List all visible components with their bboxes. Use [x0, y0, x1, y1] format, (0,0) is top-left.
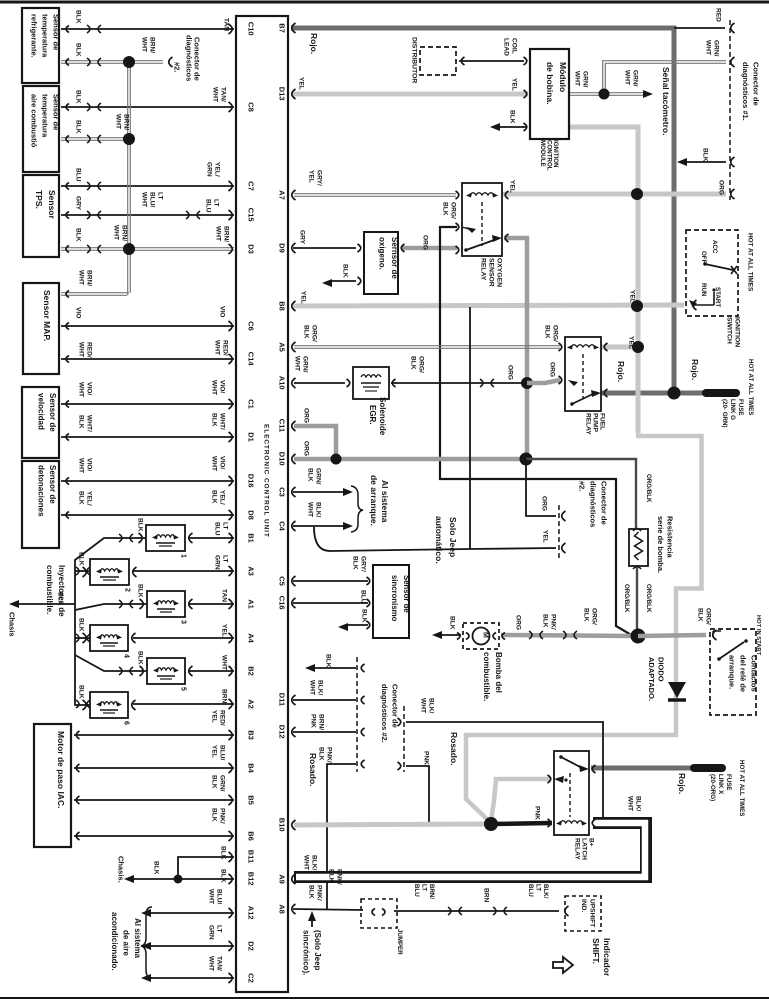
svg-text:IGNITION: IGNITION [733, 317, 740, 347]
label LT GRN D2 [207, 925, 222, 940]
svg-text:A2: A2 [247, 699, 256, 709]
svg-text:A8: A8 [278, 904, 287, 914]
svg-text:BLK: BLK [77, 552, 84, 566]
fork upshift [565, 906, 569, 916]
svg-text:OXYGEN: OXYGEN [495, 258, 502, 287]
svg-text:YEL: YEL [297, 77, 304, 90]
wire conector2 PNK/BLK to A8 [327, 764, 356, 909]
wire shield aire BRN/WHT [61, 135, 130, 143]
svg-text:WHT/: WHT/ [85, 415, 92, 432]
svg-text:WHT: WHT [77, 270, 84, 285]
svg-text:B5: B5 [247, 795, 256, 805]
svg-text:B4: B4 [247, 763, 256, 773]
svg-text:B12: B12 [247, 872, 256, 886]
svg-text:de aire: de aire [121, 930, 130, 956]
label Rojo fuelpump-r [690, 359, 700, 380]
svg-text:ORG: ORG [421, 235, 428, 250]
wire GRN/WHT tacho arrow [604, 93, 645, 96]
svg-text:4: 4 [123, 654, 130, 658]
label Rosado B10 [308, 753, 318, 787]
label GRN/BLK B5 [210, 775, 225, 792]
svg-text:B3: B3 [247, 730, 256, 740]
svg-text:WHT: WHT [207, 889, 214, 904]
resistor text [656, 516, 675, 573]
svg-text:Resistencia: Resistencia [666, 516, 675, 559]
label VIO C6 [218, 306, 225, 317]
diodo text [647, 657, 666, 701]
wire conector2 PNK down [406, 766, 429, 824]
svg-text:BLK: BLK [448, 616, 455, 630]
resistor serie de bomba [629, 529, 648, 570]
svg-text:RED/: RED/ [85, 342, 92, 358]
svg-text:Rojo.: Rojo. [690, 359, 700, 380]
svg-text:LT: LT [212, 199, 219, 207]
svg-text:B2: B2 [247, 666, 256, 676]
label TAN/WHT C2 [207, 956, 222, 971]
svg-text:BRN/: BRN/ [85, 270, 92, 286]
wire C4 BLK/WHT [293, 525, 346, 527]
contactos text [728, 655, 759, 692]
svg-text:serie de bomba.: serie de bomba. [656, 516, 665, 573]
svg-text:Bomba del: Bomba del [494, 652, 503, 693]
label BRN/WHT top-a [140, 37, 155, 53]
svg-text:Sensor de: Sensor de [402, 575, 411, 613]
wire B7 Rojo [291, 28, 674, 391]
svg-text:RED: RED [714, 8, 721, 22]
svg-text:(20-ORG): (20-ORG) [709, 774, 716, 801]
wire oxygen-relay ORG out [504, 238, 527, 460]
svg-text:C14: C14 [247, 352, 256, 367]
label YEL ign-sw [628, 290, 635, 303]
svg-text:D8: D8 [247, 510, 256, 520]
svg-text:START: START [714, 287, 721, 307]
svg-text:PNK/: PNK/ [335, 869, 342, 885]
conector2-mid dashed line [558, 505, 560, 558]
svg-text:TAN/: TAN/ [219, 87, 226, 102]
svg-text:BRN: BRN [220, 689, 227, 704]
solenoide EGR text [368, 397, 387, 436]
label BLK/WHT C4 [306, 502, 321, 518]
fork ORG conector1 [731, 189, 735, 199]
svg-text:BLK: BLK [219, 846, 226, 860]
svg-text:diagnósticos: diagnósticos [185, 35, 194, 81]
svg-text:B1: B1 [247, 533, 256, 543]
svg-text:BLU/: BLU/ [148, 192, 155, 208]
label BLK/WHT A9 [302, 855, 317, 871]
wire shield D3 BRN/WHT [129, 248, 234, 251]
label RED/YEL B3 [210, 710, 225, 726]
svg-text:BLK: BLK [77, 618, 84, 632]
oxygen sensor pin forks [358, 244, 405, 285]
svg-text:BRN/: BRN/ [120, 225, 127, 241]
svg-text:YEL: YEL [210, 710, 217, 723]
wire C6-MAP VIO [61, 325, 234, 327]
diodo adaptado [668, 682, 686, 700]
svg-text:BLU: BLU [359, 590, 366, 604]
svg-text:LT: LT [215, 925, 222, 933]
wire YEL ignition to starter contacts [466, 436, 702, 822]
modulo de bobina box [530, 49, 569, 139]
svg-text:diagnósticos #2.: diagnósticos #2. [380, 684, 389, 743]
oxygen relay pin forks [456, 191, 509, 254]
svg-text:EGR.: EGR. [368, 405, 377, 425]
svg-text:Chasis: Chasis [8, 612, 17, 637]
svg-text:BLK/: BLK/ [542, 884, 549, 899]
label ORG C11 [302, 408, 309, 423]
svg-text:WHT: WHT [114, 114, 121, 129]
wire C15-TPS GRY [61, 211, 234, 219]
wire C10-refrigerante BLK [61, 25, 234, 33]
label BRN/WHT aire [114, 114, 129, 130]
label FUSE LINK G [721, 399, 744, 428]
svg-text:BRN/: BRN/ [317, 714, 324, 730]
svg-text:B11: B11 [247, 850, 256, 863]
junction D10-ORG-bus [520, 453, 533, 466]
arrow senal tacometro [643, 90, 653, 98]
svg-text:arranque.: arranque. [728, 655, 737, 689]
svg-text:WHT: WHT [302, 855, 309, 870]
svg-text:PNK/: PNK/ [325, 747, 332, 763]
svg-text:Módulo: Módulo [558, 62, 568, 92]
svg-text:BLK: BLK [74, 90, 81, 104]
label ORG D10 [302, 441, 309, 456]
label HOT AT ALL TIMES fuseX [738, 760, 745, 816]
svg-text:PNK: PNK [422, 751, 429, 765]
svg-text:YEL/: YEL/ [85, 491, 92, 506]
svg-text:D1: D1 [247, 432, 256, 442]
label Rojo B7 [309, 33, 319, 54]
svg-text:BLK: BLK [74, 228, 81, 242]
svg-text:BLK: BLK [360, 609, 367, 623]
svg-text:combustible.: combustible. [45, 565, 54, 614]
svg-text:GRY: GRY [298, 230, 305, 245]
wire sincronismo BLK [345, 624, 368, 626]
wire B5-IAC GRN/BLK [74, 799, 234, 801]
label ORG/BLK oxy-relay [441, 202, 456, 219]
label BLK inj1 [136, 518, 143, 532]
svg-text:BLK: BLK [302, 325, 309, 339]
wire shield MAP BRN/WHT [61, 293, 129, 296]
svg-text:de arranque.: de arranque. [369, 475, 379, 526]
label Rosado mid [449, 732, 459, 766]
wire A2-injector6 BRN [133, 703, 234, 705]
svg-text:Al sistema: Al sistema [133, 918, 142, 959]
svg-text:YEL: YEL [541, 530, 548, 543]
inyectores text [45, 565, 66, 617]
fuse link G [706, 389, 736, 397]
svg-text:TAN: TAN [222, 18, 229, 31]
svg-text:#2.: #2. [578, 481, 587, 491]
B+ latch relay box [554, 751, 589, 835]
wire D16-detonaciones VIO/WHT [61, 480, 234, 482]
wire module YEL down [568, 127, 638, 434]
wire BLK conector1 [679, 161, 726, 163]
label ORG/BLK A5 [302, 325, 317, 342]
svg-text:BLK: BLK [219, 869, 226, 883]
wire D1-velocidad WHT/BLK [61, 436, 234, 438]
wire C16 BLU [293, 602, 368, 604]
label BLU TPS [74, 168, 81, 182]
sensor pin forks [66, 26, 69, 519]
wire A8 PNK/BLK [293, 909, 363, 910]
wire jumper to upshift [394, 907, 559, 915]
svg-text:HOT AT ALL TIMES: HOT AT ALL TIMES [746, 233, 753, 292]
wire shield bus vertical BRN/WHT [128, 61, 131, 295]
svg-text:BRN/: BRN/ [222, 226, 229, 242]
label BLU/YEL B4 [210, 745, 225, 761]
brace aire acondicionado [141, 907, 152, 978]
injector 2 [83, 559, 137, 592]
label BLU/WHT A12 [207, 889, 222, 905]
svg-text:#2.: #2. [173, 62, 182, 72]
label PNK/BLK A8-r [327, 869, 342, 885]
svg-text:BLK: BLK [541, 614, 548, 628]
fork YEL conector2-mid [562, 543, 566, 553]
label BLU C16 [359, 590, 366, 604]
svg-text:JUMPER: JUMPER [396, 929, 403, 955]
svg-text:Señal tacómetro.: Señal tacómetro. [661, 67, 671, 136]
module pin forks [524, 57, 527, 131]
svg-text:C5: C5 [278, 576, 287, 586]
svg-text:BLK: BLK [74, 120, 81, 134]
svg-text:WHT: WHT [140, 37, 147, 52]
svg-text:ORG: ORG [540, 496, 547, 511]
svg-text:del relé de: del relé de [739, 655, 748, 692]
svg-text:WHT: WHT [210, 380, 217, 395]
svg-text:Rosado.: Rosado. [449, 732, 459, 766]
svg-text:aire combustió: aire combustió [30, 94, 39, 148]
junction C11-D10 [331, 454, 342, 465]
svg-text:BLK/: BLK/ [427, 698, 434, 714]
svg-text:VIO/: VIO/ [218, 456, 225, 469]
fuel pump relay text [584, 413, 605, 435]
label BLK/WHT D11 [308, 680, 323, 696]
svg-text:TAN: TAN [220, 589, 227, 602]
indicador shift text [591, 938, 612, 977]
svg-text:LEAD: LEAD [502, 38, 509, 56]
label TAN/WHT C8 [211, 87, 226, 102]
label BLK sincronismo [360, 609, 367, 623]
chasis text B12 [117, 856, 126, 883]
upshift ind text [580, 899, 596, 927]
svg-text:B10: B10 [278, 818, 287, 832]
svg-text:WHT: WHT [573, 71, 580, 86]
svg-text:TAN/: TAN/ [215, 956, 222, 971]
junction YEL tacho-row [631, 188, 643, 200]
wire C3 GRN/BLK [293, 491, 346, 493]
wire B10 Rosado [294, 824, 489, 825]
svg-text:C1: C1 [247, 399, 256, 409]
svg-text:DISTRIBUTOR: DISTRIBUTOR [410, 37, 417, 83]
svg-text:B+: B+ [587, 838, 594, 847]
al sistema de aire text [110, 912, 142, 971]
svg-text:oxigeno.: oxigeno. [377, 237, 386, 270]
label YEL/GRN C7 [205, 162, 220, 177]
svg-text:BLK: BLK [441, 202, 448, 216]
label GRY D9 [298, 230, 305, 245]
conector2-bottom text [380, 684, 400, 743]
label YEL A4 [220, 624, 227, 637]
label HOT AT ALL TIMES fuseG [747, 359, 754, 415]
wire distributor-coil lead [459, 60, 524, 62]
svg-text:BLK: BLK [152, 861, 159, 875]
label YEL B8 [299, 291, 306, 304]
svg-text:MODULE: MODULE [539, 140, 546, 167]
svg-text:BLK: BLK [701, 148, 708, 162]
label YEL relay-coil [627, 336, 634, 349]
label PNK/BLK A8-l [307, 885, 322, 901]
wire B12 BLK [127, 878, 234, 880]
svg-text:GRN: GRN [213, 555, 220, 570]
svg-text:RELAY: RELAY [584, 413, 591, 435]
label GRY/YEL A7 [307, 170, 322, 186]
junction B11-B12 [174, 875, 183, 884]
svg-text:D16: D16 [247, 474, 256, 488]
svg-text:BLK: BLK [696, 608, 703, 622]
wire oxygen-relay ORG/BLK down [440, 227, 633, 636]
svg-text:BLK: BLK [74, 10, 81, 24]
ECU left pin labels [247, 22, 256, 983]
svg-text:PNK/: PNK/ [218, 808, 225, 824]
label GRN/WHT tacho [623, 70, 638, 87]
sensor sincronismo box [367, 565, 411, 638]
svg-text:sincronismo: sincronismo [390, 575, 399, 622]
svg-text:ORG: ORG [506, 365, 513, 380]
oxygen sensor relay box [462, 183, 502, 256]
svg-text:ORG: ORG [302, 408, 309, 423]
label ORG/BLK resistor-top [645, 474, 652, 503]
svg-text:LT: LT [156, 192, 163, 200]
svg-text:LT: LT [221, 555, 228, 563]
label LT GRN A3 [213, 555, 228, 570]
bomba text [482, 652, 503, 701]
svg-text:C6: C6 [247, 321, 256, 331]
fork GRN/WHT conector1 [731, 57, 735, 67]
label YEL conector2-mid [541, 530, 548, 543]
svg-text:BLK: BLK [324, 654, 331, 668]
wire C1-velocidad VIO/WHT [61, 403, 234, 405]
wire bomba BLK [440, 634, 461, 636]
svg-text:PNK: PNK [309, 714, 316, 728]
svg-text:WHT: WHT [704, 40, 711, 55]
svg-text:A12: A12 [247, 906, 256, 920]
junction bus-TPS [123, 243, 135, 255]
ground bomba [432, 631, 442, 639]
svg-text:2: 2 [124, 588, 131, 592]
svg-text:Contactos: Contactos [750, 655, 759, 692]
conector2-top text [173, 35, 202, 81]
label TAN C10 [222, 18, 229, 31]
label BLK oxygen [341, 264, 348, 278]
label BRN/PNK D12 [309, 714, 324, 730]
sensor de oxigeno box [364, 232, 399, 294]
svg-text:Chasis.: Chasis. [117, 856, 126, 883]
svg-text:PNK: PNK [533, 806, 540, 820]
label BLK aire1 [74, 90, 81, 104]
al sistema de arranque text [369, 475, 390, 526]
svg-text:BLK/: BLK/ [314, 502, 321, 518]
junction pump node [631, 629, 646, 644]
upshift ind box [565, 896, 601, 931]
svg-text:LATCH: LATCH [580, 838, 587, 860]
svg-text:GRY/: GRY/ [315, 170, 322, 186]
label PNK/BLK conector2 [317, 747, 332, 763]
svg-text:A1: A1 [247, 599, 256, 609]
svg-text:YEL: YEL [627, 336, 634, 349]
svg-text:PUMP: PUMP [591, 413, 598, 433]
label VIO/WHT detonaciones [77, 458, 92, 473]
label BLK inj5 [136, 651, 143, 665]
label VIO MAP [74, 307, 81, 318]
svg-text:OFF: OFF [700, 251, 707, 264]
label YEL/BLK detonaciones [77, 491, 92, 506]
svg-text:VIO: VIO [74, 307, 81, 318]
jumper box [361, 899, 397, 928]
label YEL oxy-relay [508, 180, 515, 193]
svg-text:BLK: BLK [210, 413, 217, 427]
fork ORG conector2-mid [562, 511, 566, 521]
svg-text:BLU: BLU [204, 199, 211, 213]
fork BLK conector1 [731, 157, 735, 167]
solo jeep sincronico text [301, 930, 322, 975]
label BLK/WHT B+relay [626, 796, 641, 812]
svg-text:D9: D9 [278, 243, 287, 253]
wire C14-MAP RED/WHT [61, 358, 234, 360]
svg-text:BLK: BLK [327, 869, 334, 883]
label ORG conector1 [717, 180, 724, 195]
svg-text:Sensor de: Sensor de [48, 393, 57, 432]
wire D2 LT GRN [148, 945, 234, 947]
svg-text:Sensor de: Sensor de [52, 94, 61, 130]
wire C5 GRY/BLK [293, 580, 368, 582]
svg-text:D13: D13 [278, 87, 287, 101]
wire ORG conector2-mid [526, 459, 556, 516]
svg-text:(Solo Jeep: (Solo Jeep [313, 930, 322, 971]
label BRN A2 [220, 689, 227, 704]
ignition switch text [725, 317, 740, 347]
hot at all times ignition [746, 233, 753, 292]
svg-text:YEL: YEL [510, 78, 517, 91]
svg-text:WHT: WHT [77, 458, 84, 473]
svg-text:5: 5 [180, 687, 187, 691]
wire B2-injector5 WHT [189, 670, 234, 672]
injector 3 [140, 591, 193, 624]
wire C7-TPS BLU [61, 182, 234, 190]
svg-text:BLK: BLK [77, 491, 84, 505]
ground sincronismo [338, 623, 348, 631]
svg-text:WHT: WHT [293, 356, 300, 371]
label RED conector1 [714, 8, 721, 22]
svg-text:Inyectores de: Inyectores de [57, 565, 66, 617]
svg-text:A9: A9 [278, 874, 287, 884]
svg-text:GRN/: GRN/ [712, 40, 719, 57]
svg-text:diagnósticos #1.: diagnósticos #1. [741, 62, 750, 121]
motor de paso IAC box [34, 724, 71, 847]
wire B8 YEL [293, 305, 684, 306]
sensor MAP box [23, 283, 59, 374]
svg-text:Motor de paso IAC.: Motor de paso IAC. [56, 731, 66, 808]
svg-text:WHT: WHT [626, 796, 633, 811]
jumper text [396, 929, 403, 955]
label WHT B2 [220, 655, 227, 670]
fork conector2-top BRN/WHT [169, 57, 173, 67]
wire YEL conector2-mid [314, 307, 556, 551]
svg-text:BRN/: BRN/ [148, 37, 155, 53]
svg-text:B7: B7 [278, 23, 287, 33]
svg-text:A7: A7 [278, 190, 287, 200]
wire D10 ORG [294, 457, 524, 462]
wire module GRN/WHT [568, 93, 604, 96]
